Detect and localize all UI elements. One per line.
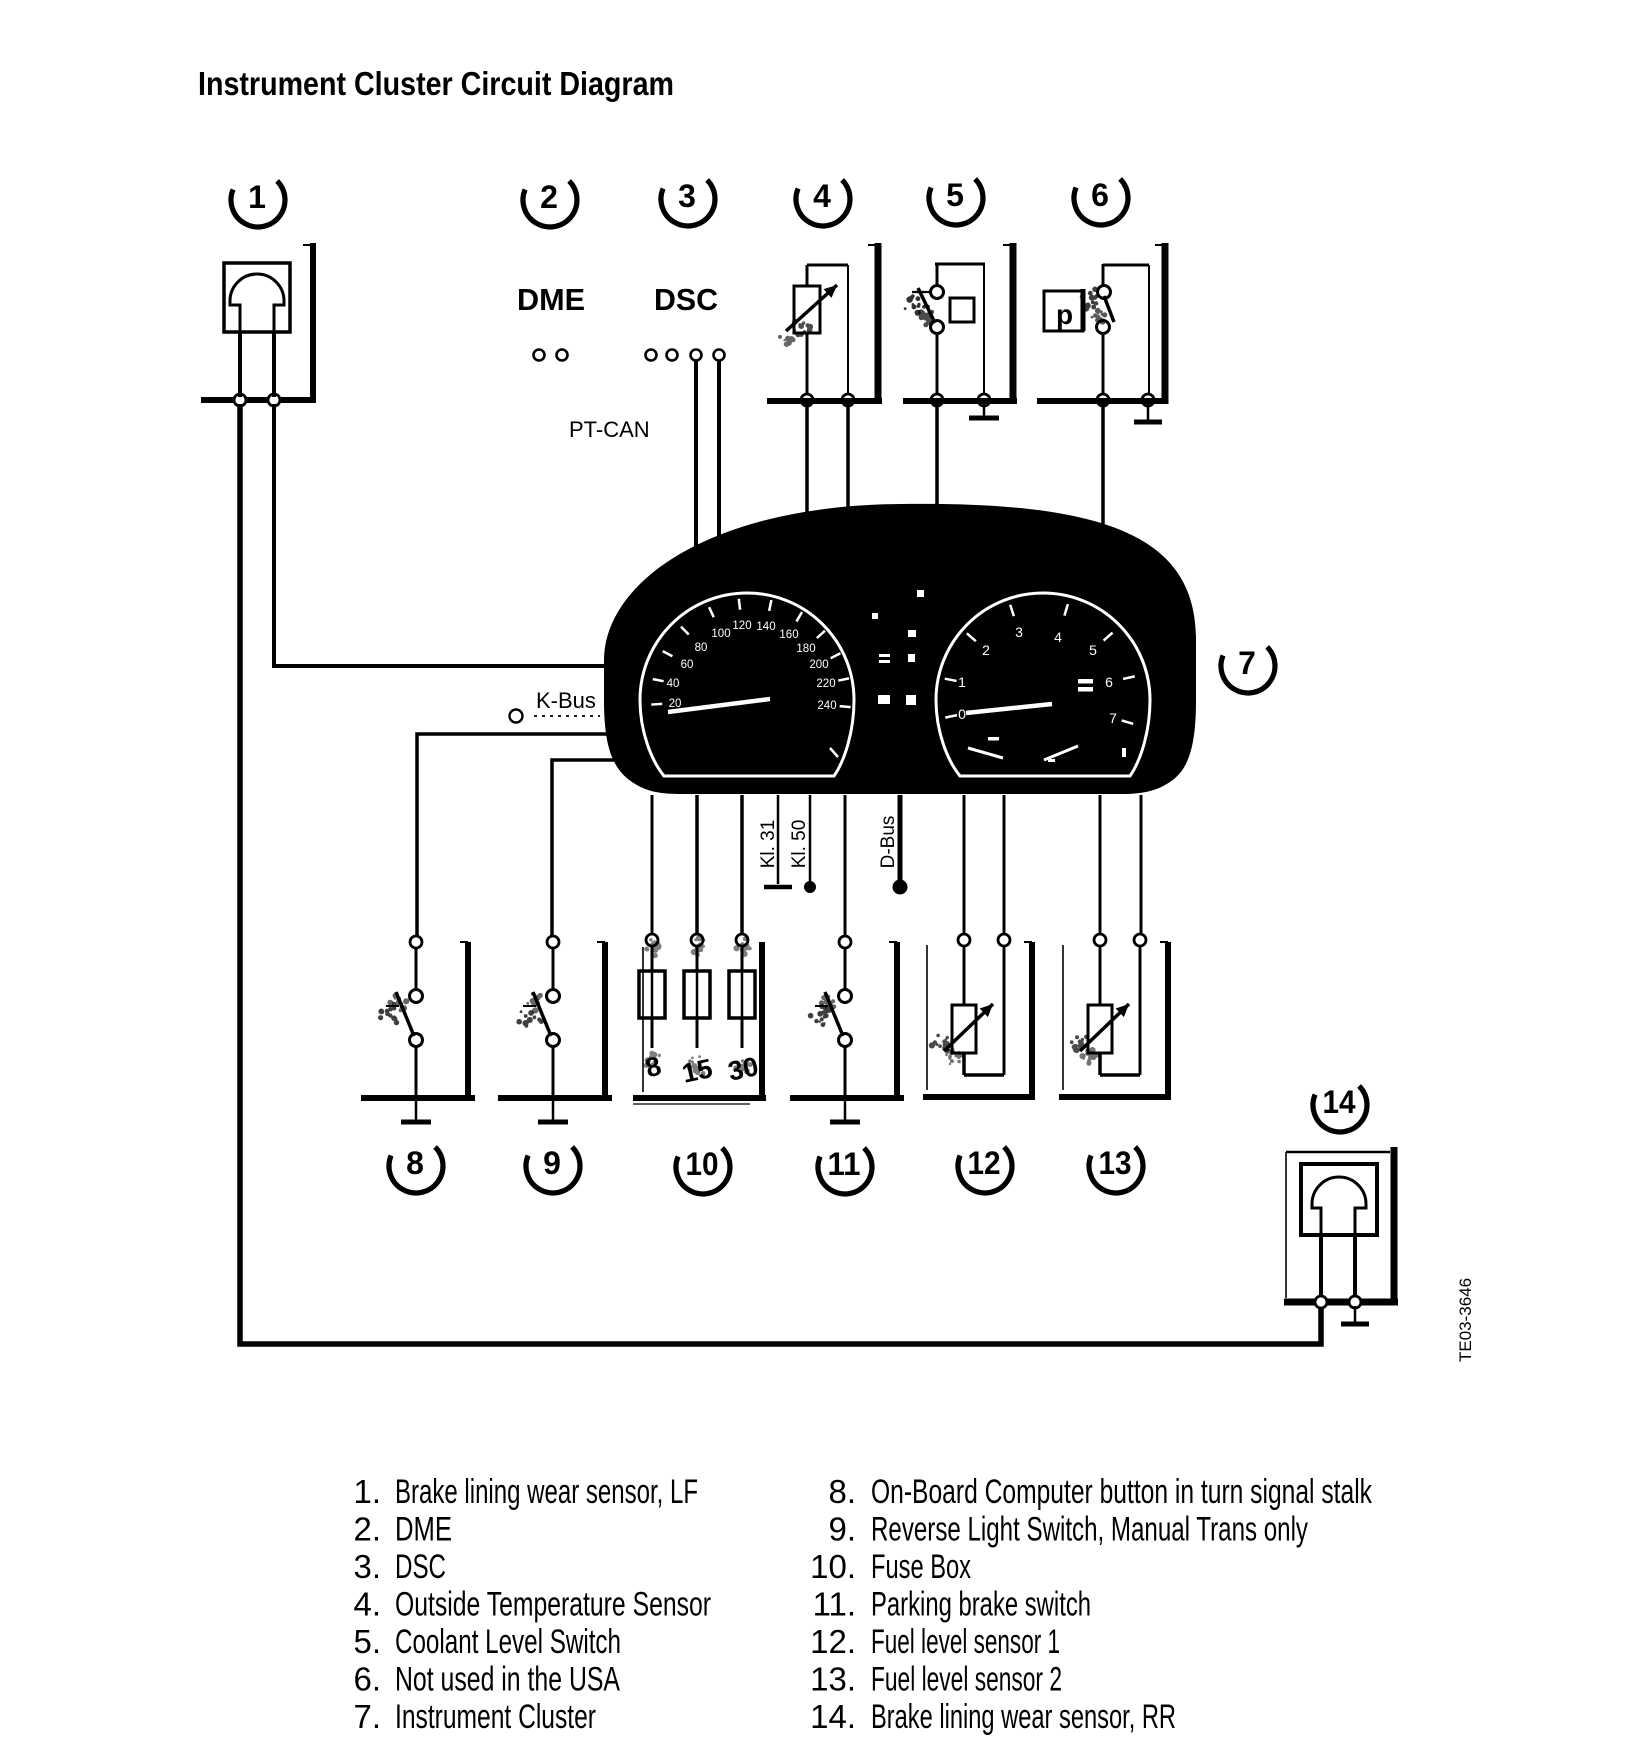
- svg-text:Kl. 50: Kl. 50: [789, 820, 810, 869]
- svg-text:14: 14: [1323, 1084, 1356, 1120]
- svg-text:240: 240: [817, 700, 836, 712]
- svg-text:2: 2: [540, 179, 558, 215]
- svg-text:2.: 2.: [353, 1511, 381, 1548]
- svg-text:Fuel level sensor 2: Fuel level sensor 2: [871, 1661, 1062, 1699]
- svg-text:7.: 7.: [353, 1698, 381, 1735]
- svg-text:7: 7: [1109, 710, 1117, 726]
- svg-text:Brake lining wear sensor, LF: Brake lining wear sensor, LF: [395, 1473, 698, 1511]
- svg-text:3: 3: [678, 178, 696, 214]
- svg-text:DME: DME: [517, 282, 585, 317]
- svg-text:Fuel level sensor 1: Fuel level sensor 1: [871, 1623, 1060, 1661]
- svg-text:Parking brake switch: Parking brake switch: [871, 1586, 1091, 1624]
- svg-text:6: 6: [1105, 674, 1113, 690]
- svg-text:5: 5: [946, 177, 964, 213]
- svg-text:140: 140: [756, 621, 775, 633]
- svg-text:60: 60: [681, 659, 694, 671]
- svg-text:DSC: DSC: [395, 1548, 446, 1586]
- svg-text:3.: 3.: [353, 1548, 381, 1585]
- svg-text:3: 3: [1015, 624, 1023, 640]
- svg-text:1: 1: [958, 674, 966, 690]
- svg-text:4: 4: [813, 178, 831, 214]
- svg-text:Outside Temperature Sensor: Outside Temperature Sensor: [395, 1586, 711, 1624]
- svg-text:DME: DME: [395, 1511, 452, 1549]
- svg-text:0: 0: [958, 706, 966, 722]
- svg-text:1: 1: [248, 179, 266, 215]
- svg-text:9: 9: [543, 1145, 561, 1181]
- svg-text:8: 8: [406, 1145, 424, 1181]
- svg-text:Reverse Light Switch, Manual T: Reverse Light Switch, Manual Trans only: [871, 1511, 1308, 1549]
- svg-text:Instrument Cluster: Instrument Cluster: [395, 1698, 596, 1736]
- svg-text:100: 100: [711, 628, 730, 640]
- svg-text:220: 220: [816, 678, 835, 690]
- svg-text:9.: 9.: [828, 1511, 856, 1548]
- svg-text:120: 120: [732, 620, 751, 632]
- svg-text:8.: 8.: [828, 1473, 856, 1510]
- svg-text:4: 4: [1054, 629, 1062, 645]
- svg-text:10: 10: [686, 1146, 719, 1182]
- svg-text:2: 2: [982, 642, 990, 658]
- svg-text:12.: 12.: [810, 1623, 856, 1660]
- svg-text:13.: 13.: [810, 1661, 856, 1698]
- svg-text:5: 5: [1089, 642, 1097, 658]
- svg-text:D-Bus: D-Bus: [878, 816, 899, 869]
- svg-text:Not used in the USA: Not used in the USA: [395, 1661, 620, 1699]
- svg-text:p: p: [1056, 299, 1073, 330]
- svg-text:Kl. 31: Kl. 31: [758, 820, 779, 869]
- svg-text:160: 160: [779, 629, 798, 641]
- svg-text:Instrument Cluster Circuit Dia: Instrument Cluster Circuit Diagram: [198, 65, 674, 102]
- svg-text:Fuse Box: Fuse Box: [871, 1548, 971, 1586]
- svg-text:20: 20: [669, 698, 682, 710]
- svg-text:6.: 6.: [353, 1661, 381, 1698]
- svg-text:Brake lining wear sensor, RR: Brake lining wear sensor, RR: [871, 1698, 1176, 1736]
- svg-text:11.: 11.: [813, 1586, 856, 1623]
- svg-text:10.: 10.: [810, 1548, 856, 1585]
- svg-text:11: 11: [828, 1146, 861, 1182]
- svg-text:4.: 4.: [353, 1586, 381, 1623]
- svg-text:On-Board Computer button in tu: On-Board Computer button in turn signal …: [871, 1473, 1373, 1511]
- svg-text:TE03-3646: TE03-3646: [1456, 1278, 1475, 1362]
- svg-text:5.: 5.: [353, 1623, 381, 1660]
- svg-text:12: 12: [968, 1145, 1001, 1181]
- svg-text:1.: 1.: [353, 1473, 381, 1510]
- svg-text:PT-CAN: PT-CAN: [569, 417, 650, 442]
- svg-text:80: 80: [695, 642, 708, 654]
- svg-text:13: 13: [1099, 1145, 1132, 1181]
- svg-text:6: 6: [1091, 177, 1109, 213]
- svg-text:200: 200: [809, 659, 828, 671]
- svg-text:K-Bus: K-Bus: [536, 688, 596, 713]
- svg-text:Coolant Level Switch: Coolant Level Switch: [395, 1623, 621, 1661]
- svg-text:DSC: DSC: [654, 282, 718, 317]
- svg-text:40: 40: [667, 678, 680, 690]
- svg-text:180: 180: [796, 643, 815, 655]
- svg-text:14.: 14.: [810, 1698, 856, 1735]
- svg-text:7: 7: [1238, 645, 1256, 681]
